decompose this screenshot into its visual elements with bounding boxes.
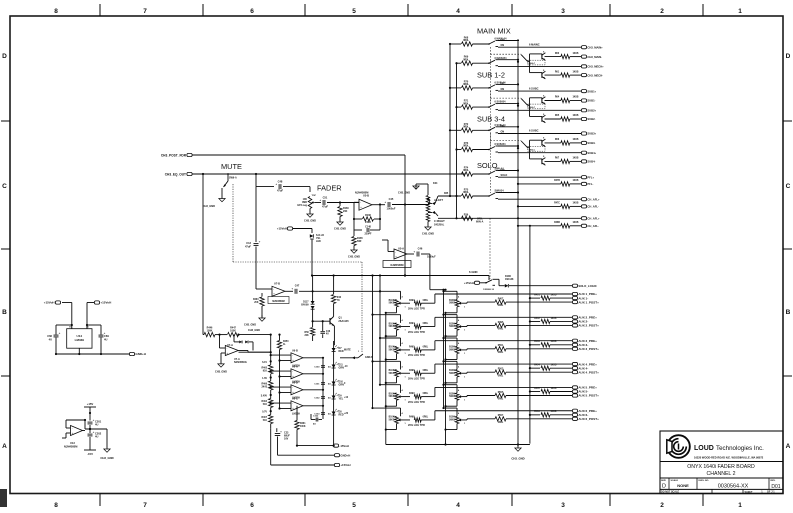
resistor MAIN MIX row 2 R69 <box>462 61 473 65</box>
connector +15VoH solo led <box>287 227 292 230</box>
wire output row CH_AFL_R- <box>518 225 561 227</box>
potentiometer AUX 2 B <box>455 323 459 330</box>
capacitor C48 <box>278 184 280 189</box>
svg-text:1N4148: 1N4148 <box>505 278 514 281</box>
switch MAIN MIX row 1 <box>488 43 490 45</box>
svg-text:R464: R464 <box>262 400 268 403</box>
wire pan top <box>415 184 417 189</box>
svg-text:1: 1 <box>738 8 742 15</box>
wire MAIN MIX row 1 off stub <box>498 40 518 42</box>
wire aux A bottom AUX 4 <box>396 377 398 383</box>
wire SUB 3-4 row 1 to switch <box>473 129 490 131</box>
svg-text:B10K: B10K <box>389 370 395 372</box>
wire comparator top feed <box>239 351 271 353</box>
svg-text:5: 5 <box>352 502 356 509</box>
wire C201 to C202 <box>89 425 91 433</box>
svg-text:R465: R465 <box>262 366 268 369</box>
wire aux A wiper AUX 2 <box>401 326 410 328</box>
wire eq-out line <box>192 173 465 175</box>
svg-text:3: 3 <box>561 8 565 15</box>
svg-text:R497: R497 <box>409 392 415 395</box>
svg-text:+15VoH: +15VoH <box>100 301 111 305</box>
svg-text:R58: R58 <box>304 332 309 334</box>
op-amp U6-C LM339 <box>291 401 303 411</box>
regulator U14 LM339 box <box>67 329 92 349</box>
wire AUX 4 minus line <box>530 367 540 369</box>
switch B row4 group 2 <box>541 116 543 122</box>
ground CH3_GND pan bottom <box>427 222 429 228</box>
pan wiper A LEFT <box>428 203 432 205</box>
gang dashed box out group 1 <box>528 60 545 65</box>
wire pan right out <box>438 217 581 219</box>
svg-text:CH3_MECH+: CH3_MECH+ <box>587 65 604 69</box>
capacitor C23 <box>276 428 278 432</box>
connector GND+H meter <box>334 454 339 457</box>
scan mark bottom-left edge <box>0 489 7 507</box>
resistor R463 <box>261 293 263 297</box>
wire solo logic out <box>509 285 572 287</box>
svg-text:R407: R407 <box>498 297 504 300</box>
ground CH3_GND r463 <box>261 315 263 318</box>
resistor R64 <box>561 98 570 102</box>
wire comp input 2 <box>271 370 291 372</box>
svg-text:6 MAINC: 6 MAINC <box>529 42 540 46</box>
dashed inv feed group 3 <box>490 140 521 142</box>
svg-text:+: + <box>259 240 261 244</box>
svg-text:-: - <box>395 251 396 254</box>
wire inv stub2 group 1 <box>530 72 542 74</box>
connector AUX 3- <box>572 343 577 346</box>
resistor SUB 1-2 row 1 R70 <box>462 86 473 90</box>
svg-text:1K0B: 1K0B <box>573 139 579 141</box>
wire aux B top AUX 2 <box>444 314 458 316</box>
op-amp U6-B LM339 <box>291 353 303 363</box>
wire r446-r447 <box>215 334 227 336</box>
wire aux B bottom AUX 5 <box>456 400 458 406</box>
svg-text:B10K: B10K <box>449 323 455 325</box>
ruler top tick marks <box>99 4 101 16</box>
svg-text:6 SUBC: 6 SUBC <box>529 129 539 133</box>
wire Q1 emitter <box>333 326 335 345</box>
resistor R461 <box>296 406 298 421</box>
op-amp U7-B <box>272 286 285 296</box>
wire output row4b group 2 <box>570 118 581 120</box>
svg-text:1K0B: 1K0B <box>573 71 579 73</box>
wire output row PFL+ <box>498 176 581 178</box>
svg-text:1K0B: 1K0B <box>573 222 579 224</box>
wire -15VoH line <box>297 445 333 447</box>
svg-text:B10K: B10K <box>389 393 395 395</box>
resistor R401 AUX 1 <box>541 296 550 300</box>
wire inv stub1 group 2 <box>530 97 542 99</box>
svg-text:0R0L: 0R0L <box>498 329 504 331</box>
wire +15V left drop <box>62 302 72 304</box>
wire C202 down <box>89 437 91 450</box>
svg-text:1: 1 <box>738 502 742 509</box>
wire post-fdr vertical <box>404 155 406 276</box>
wire r446 row <box>203 334 204 336</box>
wire left vertical bus <box>202 174 204 335</box>
connector -15VoH <box>333 444 338 447</box>
switch MAIN MIX row 2 <box>488 62 490 64</box>
svg-text:+10: +10 <box>344 396 349 399</box>
svg-text:LM339: LM339 <box>292 412 300 415</box>
svg-text:CH3_GND: CH3_GND <box>244 324 256 327</box>
wire comp output 2 <box>303 373 323 375</box>
aux vertical bus 5 <box>445 313 447 445</box>
transistor Q1 2SA1145 <box>333 304 335 316</box>
wire output row4b group 1 <box>570 74 581 76</box>
gang dashed link SUB 1-2 <box>489 91 491 104</box>
wire plus input rail <box>279 350 281 409</box>
svg-text:C66: C66 <box>47 334 52 338</box>
svg-text:1K0B: 1K0B <box>551 364 557 366</box>
wire output row3 SUB4+ <box>498 152 581 154</box>
connector AUX 6- <box>572 413 577 416</box>
wire aux A top AUX 3 <box>380 337 401 339</box>
resistor R499 AUX 4 <box>414 371 421 375</box>
capacitor C13 <box>255 187 257 242</box>
capacitor C153 <box>321 412 325 414</box>
wire c48 to fader <box>283 186 310 188</box>
aux vertical bus 4 <box>443 290 445 409</box>
svg-text:R66: R66 <box>555 139 560 141</box>
svg-text:SIZE: SIZE <box>661 480 666 482</box>
wire AUX 4 minus line 2 <box>550 367 572 369</box>
switch SUB 1-2 row 1 <box>488 87 490 89</box>
resistor R43 <box>333 276 335 295</box>
svg-text:R467: R467 <box>262 416 268 419</box>
svg-text:0R0L: 0R0L <box>463 102 469 105</box>
svg-text:+: + <box>413 249 415 253</box>
svg-text:C152: C152 <box>314 398 320 400</box>
wire aux A wiper AUX 3 <box>401 349 410 351</box>
svg-text:4U: 4U <box>95 423 98 427</box>
svg-text:1: 1 <box>761 490 763 494</box>
svg-text:20% LOG TPR: 20% LOG TPR <box>408 331 425 334</box>
svg-text:C RIGHT: C RIGHT <box>434 219 445 223</box>
svg-text:CH_AFL+: CH_AFL+ <box>587 217 600 221</box>
wire fader pot bottom gnd <box>309 209 311 215</box>
connector AUX 1- <box>572 297 577 300</box>
led D9 YEL <box>332 396 336 400</box>
svg-text:CH3_GND: CH3_GND <box>304 220 316 223</box>
ground CH3_GND aux <box>515 448 521 451</box>
svg-text:R402: R402 <box>534 317 540 320</box>
svg-text:CH3_GND: CH3_GND <box>398 192 410 195</box>
svg-text:0R0L: 0R0L <box>463 169 469 172</box>
svg-text:U6-C: U6-C <box>292 398 298 401</box>
wire U5B out <box>372 204 385 206</box>
svg-text:TOP: TOP <box>312 195 317 197</box>
svg-text:U7-A: U7-A <box>227 343 233 347</box>
svg-text:20K: 20K <box>343 210 348 213</box>
wire SUB 3-4 row 2 to switch <box>473 149 490 151</box>
svg-text:4U: 4U <box>328 366 331 369</box>
wire SOLO row 1 off stub <box>498 170 518 172</box>
resistor R403 AUX 3 <box>541 343 550 347</box>
ruler right tick marks <box>783 120 792 122</box>
wire +15VoH line <box>271 464 334 466</box>
connector AUX 5_PRE+ <box>572 386 577 389</box>
wire output row1 SUB3+ <box>498 133 581 135</box>
potentiometer AUX 3 A <box>395 346 399 353</box>
led D11 GRN <box>332 365 336 369</box>
wire output row2b group 3 <box>570 142 581 144</box>
svg-text:FADER: FADER <box>317 184 342 193</box>
svg-text:5: 5 <box>352 8 356 15</box>
svg-text:C152: C152 <box>313 416 319 418</box>
svg-text:+15VoH: +15VoH <box>277 227 287 231</box>
svg-text:C46: C46 <box>418 247 423 251</box>
svg-text:100K: 100K <box>300 426 306 428</box>
svg-text:R61: R61 <box>555 71 560 73</box>
svg-text:-: - <box>273 288 274 291</box>
svg-text:CH_AFL-: CH_AFL- <box>587 205 599 209</box>
svg-text:R60: R60 <box>555 53 560 55</box>
wire +15V right drop <box>87 302 94 304</box>
wire mute sw to gnd <box>221 188 223 199</box>
svg-text:C150: C150 <box>314 367 320 369</box>
svg-text:20% LOG TPR: 20% LOG TPR <box>408 424 425 427</box>
resistor MAIN MIX row 1 R68 <box>462 42 473 46</box>
wire output row2 group 2 <box>545 100 561 102</box>
wire output row CH_AFL_L+ <box>498 198 581 200</box>
wire aux A bottom AUX 6 <box>396 424 398 430</box>
svg-text:1K0B: 1K0B <box>573 180 579 182</box>
ground CH3_GND r165 <box>353 246 355 251</box>
wire comp plus input 2 <box>280 376 292 378</box>
wire aux A out AUX 4 <box>421 372 435 374</box>
svg-text:0R0L: 0R0L <box>498 399 504 401</box>
svg-text:+20: +20 <box>344 412 349 415</box>
dashed inv feed group 2 <box>490 97 521 99</box>
svg-text:AUX 2_POST+: AUX 2_POST+ <box>578 324 599 328</box>
switch SUB 3-4 row 2 <box>488 149 490 151</box>
svg-text:7: 7 <box>143 8 147 15</box>
resistor SOLO row 1 R74 <box>462 172 473 176</box>
svg-text:50KB: 50KB <box>389 373 395 375</box>
wire output row1 SUB1+ <box>498 90 581 92</box>
svg-text:CH3_GND: CH3_GND <box>215 371 227 374</box>
connector +15VoH left <box>55 301 60 304</box>
cap column wire <box>322 358 324 419</box>
svg-text:SW6-C: SW6-C <box>528 149 535 151</box>
wire U7A out <box>238 350 248 352</box>
svg-text:S4C/BAL: S4C/BAL <box>434 224 445 227</box>
capacitor C45 <box>387 202 389 207</box>
svg-text:47uF: 47uF <box>245 245 251 249</box>
svg-text:CH_AFL+: CH_AFL+ <box>587 197 600 201</box>
capacitor C148 feedback <box>353 219 355 230</box>
resistor R165 <box>353 230 355 236</box>
resistor R36 pan right <box>462 216 473 220</box>
svg-text:6: 6 <box>250 8 254 15</box>
svg-text:+: + <box>291 287 293 291</box>
svg-text:-15VoH: -15VoH <box>339 444 348 448</box>
svg-text:C46: C46 <box>326 330 331 333</box>
svg-text:100K: 100K <box>230 329 236 332</box>
svg-text:B10K: B10K <box>449 300 455 302</box>
svg-text:SW6-C: SW6-C <box>528 107 535 109</box>
svg-text:4U: 4U <box>49 338 52 342</box>
svg-text:1K0B: 1K0B <box>551 294 557 296</box>
svg-text:LM339: LM339 <box>75 338 85 342</box>
svg-text:GND+H: GND+H <box>135 352 146 356</box>
svg-text:R503: R503 <box>498 368 504 370</box>
svg-text:PFL+: PFL+ <box>587 175 594 179</box>
svg-text:SHEET: SHEET <box>745 491 754 494</box>
svg-text:ONYX 1640i FADER BOARD: ONYX 1640i FADER BOARD <box>687 464 755 470</box>
svg-text:B10K: B10K <box>389 417 395 419</box>
wire aux B bottom AUX 6 <box>456 424 458 430</box>
wire aux A top AUX 5 <box>380 384 401 386</box>
wire pan left out <box>438 195 461 197</box>
svg-text:B: B <box>2 309 7 316</box>
svg-text:+: + <box>384 200 386 204</box>
potentiometer AUX 5 A <box>395 393 399 400</box>
svg-text:B10K: B10K <box>449 393 455 395</box>
svg-text:50KB: 50KB <box>449 396 455 398</box>
aux vertical bus 2 <box>379 276 381 385</box>
svg-text:B: B <box>786 309 791 316</box>
resistor R503 AUX 4 <box>495 370 506 374</box>
svg-text:C69: C69 <box>104 334 109 338</box>
wire emitter to led chain <box>333 344 336 346</box>
svg-text:0030564-XX: 0030564-XX <box>718 484 749 490</box>
wire opamp out to gnd node <box>85 428 107 430</box>
switch B row2 group 1 <box>541 54 543 60</box>
svg-text:NJM4580M: NJM4580M <box>64 445 77 449</box>
svg-text:6 GND: 6 GND <box>469 270 478 274</box>
wire C45 to pan <box>392 204 429 206</box>
potentiometer AUX 2 A <box>395 323 399 330</box>
led chain wire <box>333 341 335 430</box>
svg-text:ON: ON <box>501 88 505 91</box>
wire aux B top AUX 4 <box>444 360 458 362</box>
LOUD Technologies logo <box>667 435 690 458</box>
resistor divider chain wire <box>270 346 272 365</box>
svg-text:0.7V: 0.7V <box>262 411 267 414</box>
svg-text:A: A <box>786 443 791 450</box>
resistor R61 <box>561 73 570 77</box>
svg-text:R498: R498 <box>409 416 415 419</box>
wire AUX 6 minus line <box>530 414 540 416</box>
svg-text:NJM4580M: NJM4580M <box>355 191 368 195</box>
resistor R160 <box>339 203 341 207</box>
resistor R464 <box>269 399 273 408</box>
svg-text:2K43: 2K43 <box>262 386 268 389</box>
ground CH3_GND u7a <box>218 364 224 367</box>
svg-text:B10K: B10K <box>449 347 455 349</box>
svg-text:U13: U13 <box>70 441 75 445</box>
wire aux A bottom AUX 1 <box>396 307 398 313</box>
gang dashed box out group 2 <box>528 104 545 109</box>
wire AUX 3 minus line 2 <box>550 344 572 346</box>
gang dashed vertical <box>489 60 491 174</box>
resistor R65 <box>561 117 570 121</box>
svg-text:R507: R507 <box>498 415 504 417</box>
capacitor C66 <box>55 325 57 335</box>
svg-text:0R0L: 0R0L <box>423 347 429 349</box>
capacitor C202 <box>88 433 93 435</box>
wire comp input 3 <box>271 386 291 388</box>
wire U7A plus gnd <box>221 352 225 354</box>
switch SOLO row 1 <box>488 173 490 175</box>
svg-text:R466: R466 <box>262 383 268 386</box>
wire output row PFL- <box>518 183 561 185</box>
svg-text:CH3_GND: CH3_GND <box>334 228 346 231</box>
wire output row2 group 1 <box>545 56 561 58</box>
wire AUX 5 post line <box>506 395 572 397</box>
svg-text:CHANNEL 2: CHANNEL 2 <box>707 471 736 477</box>
svg-text:7K: 7K <box>337 300 340 302</box>
junction aux feed x405 <box>404 274 406 276</box>
wire SUB 3-4 row 2 feed <box>457 149 462 151</box>
resistor R507 AUX 6 <box>495 417 506 421</box>
aux feed bus wire <box>312 275 489 277</box>
svg-text:-15V: -15V <box>87 452 93 456</box>
svg-text:1/2SW6-10: 1/2SW6-10 <box>483 289 495 291</box>
wire +15V to cap <box>89 413 91 421</box>
svg-text:B10K: B10K <box>449 417 455 419</box>
wire U7B out <box>285 290 293 292</box>
bus vertical left A <box>449 44 451 196</box>
svg-text:1000uF: 1000uF <box>427 256 436 259</box>
connector AUX 1_POST+ <box>572 301 577 304</box>
resistor SUB 3-4 row 1 R72 <box>462 128 473 132</box>
wire output row2 group 3 <box>545 142 561 144</box>
svg-text:CH3_GND: CH3_GND <box>203 204 216 208</box>
resistor R450 <box>279 335 281 341</box>
svg-text:0R0L: 0R0L <box>498 422 504 424</box>
wire inv stub2 group 2 <box>530 116 542 118</box>
svg-text:SUB1+: SUB1+ <box>587 89 596 93</box>
potentiometer AUX 4 B <box>455 370 459 377</box>
switch SOLO row 2 <box>488 195 490 197</box>
mute switch SW6-A <box>227 174 229 181</box>
wire output row4 group 1 <box>545 74 561 76</box>
svg-text:0R0L: 0R0L <box>463 126 469 129</box>
svg-text:CH_AFL-: CH_AFL- <box>587 224 599 228</box>
wire Q1 base line <box>313 320 330 322</box>
svg-text:R403: R403 <box>534 340 540 343</box>
svg-text:R501: R501 <box>498 345 504 347</box>
wire +15VoH to led <box>293 228 312 230</box>
wire SOLO row 1 to switch <box>473 173 490 175</box>
svg-text:1K0B: 1K0B <box>551 318 557 320</box>
wire output row2b group 1 <box>570 56 581 58</box>
wire output row3 CH3_MECH+ <box>498 65 581 67</box>
svg-text:C: C <box>786 183 791 190</box>
capacitor C47 <box>294 289 296 294</box>
svg-text:4: 4 <box>456 502 460 509</box>
svg-text:PFL-: PFL- <box>587 182 593 186</box>
capacitor C152 <box>311 419 315 421</box>
svg-text:AUX 1_POST+: AUX 1_POST+ <box>578 300 599 304</box>
svg-text:56R: 56R <box>357 240 362 243</box>
svg-text:R493: R493 <box>409 299 415 302</box>
svg-text:-: - <box>292 403 293 406</box>
svg-text:DO NOT SCALE: DO NOT SCALE <box>661 491 679 494</box>
svg-text:A LEFT: A LEFT <box>434 198 443 202</box>
wire aux B bottom AUX 3 <box>456 354 458 360</box>
aux vertical bus 1 <box>372 276 374 409</box>
wire AUX 5 minus line 2 <box>550 391 572 393</box>
resistor R498 AUX 5 <box>414 394 421 398</box>
svg-text:SOLO: SOLO <box>501 174 508 177</box>
svg-text:0R0L: 0R0L <box>463 39 469 42</box>
